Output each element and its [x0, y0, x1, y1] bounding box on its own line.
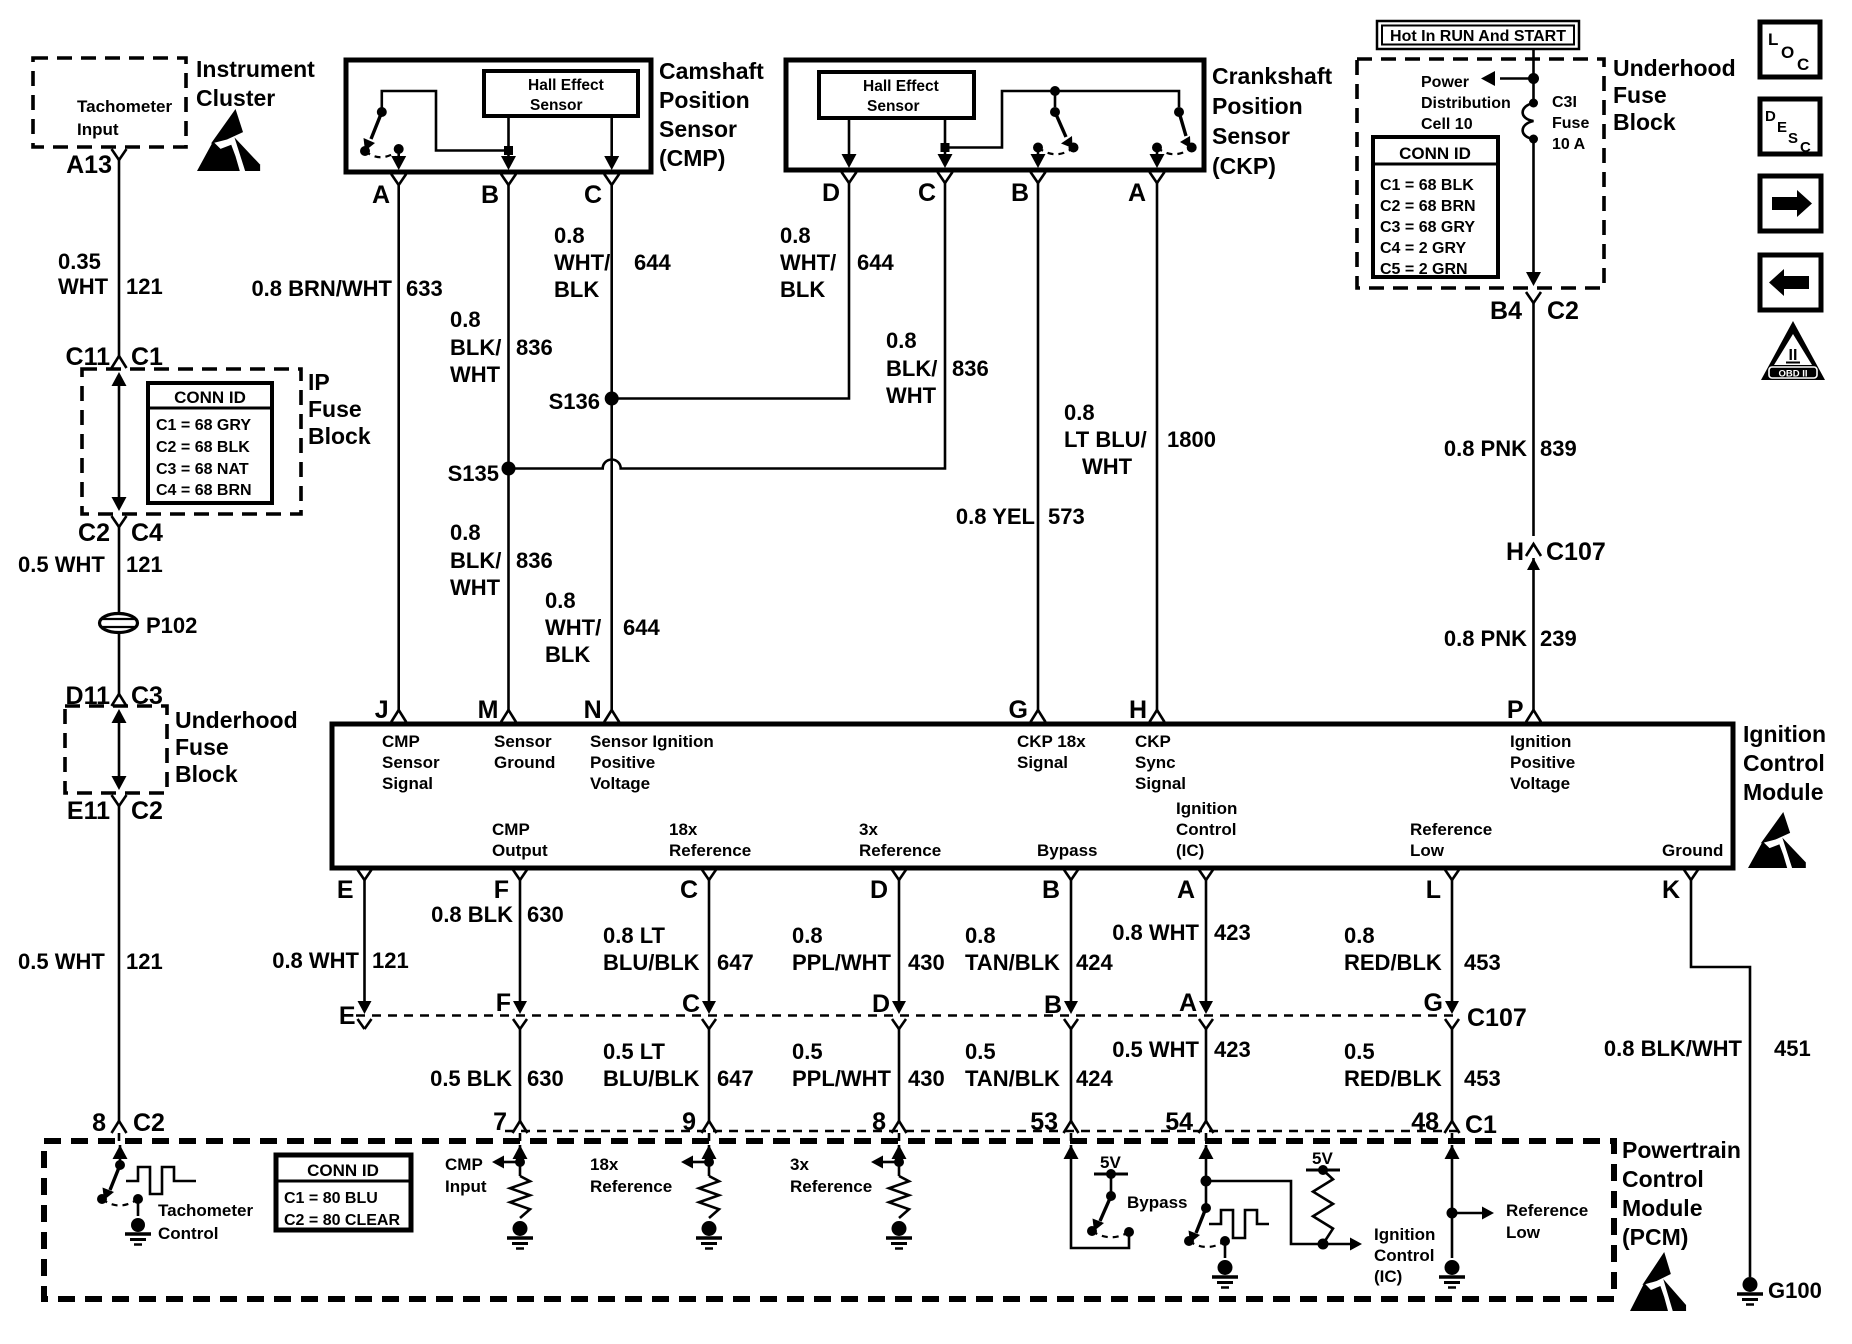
svg-text:Control: Control	[158, 1224, 218, 1243]
svg-text:0.8: 0.8	[792, 923, 823, 948]
svg-text:839: 839	[1540, 436, 1577, 461]
svg-text:II: II	[1789, 347, 1798, 364]
svg-text:LT BLU/: LT BLU/	[1064, 427, 1147, 452]
tachometer control switch (PCM pin 8)	[113, 1145, 128, 1159]
svg-text:Ignition: Ignition	[1176, 799, 1237, 818]
svg-text:TAN/BLK: TAN/BLK	[965, 950, 1060, 975]
svg-text:121: 121	[126, 274, 163, 299]
wire through IP fuse block	[118, 383, 121, 500]
reference low (PCM pin 48)	[1445, 1145, 1460, 1159]
svg-text:453: 453	[1464, 1066, 1501, 1091]
svg-text:C2: C2	[133, 1109, 165, 1137]
wire 573 YEL (CKP B to ICM G)	[1037, 208, 1040, 708]
svg-text:Sync: Sync	[1135, 753, 1176, 772]
wire 1800 LT BLU/WHT (CKP A to ICM H)	[1156, 208, 1159, 708]
svg-text:Output: Output	[492, 841, 548, 860]
camshaft position sensor box	[346, 60, 651, 172]
svg-text:Fuse: Fuse	[1552, 115, 1589, 132]
svg-text:C1 = 68 GRY: C1 = 68 GRY	[156, 417, 251, 434]
svg-text:Sensor: Sensor	[382, 753, 440, 772]
svg-text:M: M	[478, 696, 499, 724]
svg-text:836: 836	[516, 335, 553, 360]
svg-text:121: 121	[126, 552, 163, 577]
svg-text:C2 = 68 BRN: C2 = 68 BRN	[1380, 198, 1476, 215]
svg-text:C1: C1	[131, 343, 163, 371]
svg-text:239: 239	[1540, 626, 1577, 651]
svg-text:F: F	[496, 989, 511, 1017]
svg-text:48: 48	[1411, 1108, 1439, 1136]
svg-text:WHT/: WHT/	[554, 250, 610, 275]
svg-text:A: A	[372, 181, 390, 209]
svg-text:Reference: Reference	[1410, 820, 1492, 839]
svg-text:0.8: 0.8	[554, 223, 585, 248]
stub to CKP pin D	[848, 118, 851, 156]
svg-text:WHT: WHT	[1082, 454, 1133, 479]
wire 121 WHT (to underhood fuse block)	[118, 632, 121, 682]
svg-text:0.5: 0.5	[1344, 1039, 1375, 1064]
svg-text:0.5 WHT: 0.5 WHT	[1112, 1037, 1199, 1062]
svg-text:WHT: WHT	[450, 362, 501, 387]
svg-text:7: 7	[493, 1108, 507, 1136]
svg-text:C: C	[918, 179, 936, 207]
svg-text:836: 836	[952, 356, 989, 381]
svg-text:RED/BLK: RED/BLK	[1344, 1066, 1442, 1091]
svg-text:Sensor: Sensor	[1212, 123, 1290, 149]
svg-text:WHT/: WHT/	[545, 615, 601, 640]
svg-text:Fuse: Fuse	[1613, 82, 1667, 108]
stub to CMP pin C	[610, 116, 613, 158]
svg-text:Signal: Signal	[1017, 753, 1068, 772]
svg-text:C2: C2	[78, 519, 110, 547]
svg-text:Low: Low	[1410, 841, 1445, 860]
svg-text:18x: 18x	[669, 820, 698, 839]
svg-text:0.8 PNK: 0.8 PNK	[1444, 436, 1527, 461]
svg-text:C2 = 80 CLEAR: C2 = 80 CLEAR	[284, 1212, 400, 1229]
wire 836 BLK/WHT (CMP B to ICM M)	[507, 210, 510, 708]
svg-text:Ground: Ground	[494, 753, 555, 772]
wire 453 RED/BLK (ICM L to C107)	[1451, 901, 1454, 1001]
switch (CKP 18x)	[1050, 86, 1060, 96]
svg-text:Low: Low	[1506, 1223, 1541, 1242]
svg-text:423: 423	[1214, 920, 1251, 945]
svg-text:B: B	[1044, 991, 1062, 1019]
svg-text:Module: Module	[1743, 779, 1824, 805]
svg-text:(CKP): (CKP)	[1212, 153, 1276, 179]
svg-text:Ground: Ground	[1662, 841, 1723, 860]
svg-text:Input: Input	[77, 120, 119, 139]
CONN ID table (PCM)	[276, 1155, 411, 1230]
svg-text:B: B	[481, 181, 499, 209]
svg-text:Sensor Ignition: Sensor Ignition	[590, 732, 714, 751]
svg-text:Reference: Reference	[669, 841, 751, 860]
svg-text:Control: Control	[1374, 1246, 1434, 1265]
svg-text:Sensor: Sensor	[530, 97, 583, 114]
svg-text:Positive: Positive	[590, 753, 655, 772]
svg-text:A13: A13	[66, 151, 112, 179]
crankshaft position sensor box	[786, 60, 1204, 170]
svg-text:121: 121	[126, 949, 163, 974]
ESD symbol (PCM)	[1630, 1252, 1686, 1311]
svg-text:0.8: 0.8	[965, 923, 996, 948]
svg-text:Camshaft: Camshaft	[659, 58, 764, 84]
svg-text:C1 = 68 BLK: C1 = 68 BLK	[1380, 177, 1474, 194]
svg-text:BLK/: BLK/	[886, 356, 937, 381]
svg-text:CKP 18x: CKP 18x	[1017, 732, 1086, 751]
svg-text:Reference: Reference	[1506, 1201, 1588, 1220]
internal wiring (CMP)	[382, 91, 504, 151]
instrument cluster box	[33, 58, 186, 147]
wire 647 LT BLU/BLK (C107 to PCM)	[708, 1029, 711, 1108]
hall effect sensor box (CMP)	[484, 71, 638, 116]
svg-text:0.5: 0.5	[965, 1039, 996, 1064]
wire 239 PNK (to ICM P)	[1532, 558, 1535, 708]
wire 121 WHT (ICM E to C107)	[363, 901, 366, 1001]
wire 647 LT BLU/BLK (ICM C to C107)	[708, 901, 711, 1001]
svg-text:G: G	[1424, 989, 1443, 1017]
svg-text:644: 644	[857, 250, 894, 275]
svg-text:0.8: 0.8	[1344, 923, 1375, 948]
svg-text:BLK/: BLK/	[450, 335, 501, 360]
ESD symbol (ICM)	[1748, 812, 1806, 868]
3x reference (PCM)	[892, 1145, 907, 1159]
svg-text:C11: C11	[66, 343, 111, 371]
wire 121 WHT (tachometer input)	[118, 176, 121, 342]
svg-text:CONN ID: CONN ID	[307, 1161, 379, 1180]
svg-text:A: A	[1128, 179, 1146, 207]
svg-text:Reference: Reference	[859, 841, 941, 860]
wire S135 to CKP C (with hop over CMP C wire)	[509, 208, 946, 469]
svg-text:B4: B4	[1490, 297, 1522, 325]
wire through underhood fuse block	[118, 717, 121, 780]
svg-text:WHT/: WHT/	[780, 250, 836, 275]
svg-text:D: D	[870, 876, 888, 904]
svg-text:Sensor: Sensor	[659, 116, 737, 142]
svg-text:C107: C107	[1546, 538, 1606, 566]
CMP input (PCM)	[513, 1145, 528, 1159]
svg-text:Reference: Reference	[590, 1177, 672, 1196]
svg-text:C2 = 68 BLK: C2 = 68 BLK	[156, 439, 250, 456]
switch (CKP sync)	[1174, 107, 1184, 117]
svg-text:C2: C2	[131, 797, 163, 825]
svg-text:8: 8	[872, 1108, 886, 1136]
svg-text:0.5 LT: 0.5 LT	[603, 1039, 666, 1064]
svg-text:(CMP): (CMP)	[659, 145, 725, 171]
svg-text:Powertrain: Powertrain	[1622, 1137, 1741, 1163]
svg-text:Module: Module	[1622, 1195, 1703, 1221]
svg-text:0.8: 0.8	[450, 307, 481, 332]
IP fuse block box	[82, 369, 301, 514]
svg-text:Tachometer: Tachometer	[77, 97, 172, 116]
wire 424 TAN/BLK (ICM B to C107)	[1070, 901, 1073, 1001]
wire from hot feed	[1532, 49, 1535, 101]
svg-text:(PCM): (PCM)	[1622, 1224, 1688, 1250]
svg-text:PPL/WHT: PPL/WHT	[792, 950, 892, 975]
wire 121 WHT (to P102)	[118, 540, 121, 613]
svg-text:Crankshaft: Crankshaft	[1212, 63, 1332, 89]
wire S136 to CKP D	[612, 208, 849, 399]
svg-text:Reference: Reference	[790, 1177, 872, 1196]
svg-text:630: 630	[527, 902, 564, 927]
svg-text:Fuse: Fuse	[175, 734, 229, 760]
svg-text:0.5 WHT: 0.5 WHT	[18, 552, 105, 577]
svg-text:10 A: 10 A	[1552, 136, 1586, 153]
IC switch	[1205, 1181, 1208, 1208]
square wave symbol (IC)	[1209, 1210, 1269, 1238]
svg-text:53: 53	[1030, 1108, 1058, 1136]
svg-text:0.8: 0.8	[1064, 400, 1095, 425]
svg-text:Cluster: Cluster	[196, 85, 275, 111]
svg-text:Distribution: Distribution	[1421, 95, 1511, 112]
svg-text:S135: S135	[448, 461, 499, 486]
svg-text:J: J	[375, 696, 389, 724]
svg-text:C: C	[584, 181, 602, 209]
svg-text:Underhood: Underhood	[1613, 55, 1736, 81]
svg-text:424: 424	[1076, 1066, 1113, 1091]
svg-text:CMP: CMP	[445, 1155, 483, 1174]
icon DESC	[1760, 99, 1820, 154]
svg-text:P102: P102	[146, 613, 197, 638]
power distribution tap	[1528, 73, 1539, 84]
svg-text:C: C	[1797, 55, 1809, 74]
svg-text:B: B	[1042, 876, 1060, 904]
svg-text:Hall Effect: Hall Effect	[863, 78, 939, 95]
svg-text:K: K	[1662, 876, 1680, 904]
ignition control driver (PCM pin 54)	[1199, 1145, 1214, 1159]
svg-text:Control: Control	[1622, 1166, 1704, 1192]
svg-text:G: G	[1009, 696, 1028, 724]
svg-text:C4 = 2 GRY: C4 = 2 GRY	[1380, 240, 1466, 257]
svg-text:CMP: CMP	[492, 820, 530, 839]
svg-text:BLU/BLK: BLU/BLK	[603, 950, 700, 975]
svg-text:F: F	[494, 876, 509, 904]
wire 121 WHT (to PCM pin 8)	[118, 818, 121, 1108]
svg-text:C1 = 80 BLU: C1 = 80 BLU	[284, 1190, 378, 1207]
svg-text:Sensor: Sensor	[867, 98, 920, 115]
svg-text:E: E	[1777, 119, 1787, 136]
svg-text:0.8 WHT: 0.8 WHT	[1112, 920, 1199, 945]
svg-text:Ignition: Ignition	[1743, 721, 1826, 747]
svg-text:C: C	[680, 876, 698, 904]
svg-text:8: 8	[92, 1109, 106, 1137]
PCM connector C1 line	[505, 1130, 1458, 1132]
svg-text:H: H	[1129, 696, 1147, 724]
svg-text:3x: 3x	[859, 820, 878, 839]
svg-text:CKP: CKP	[1135, 732, 1171, 751]
svg-text:WHT: WHT	[450, 575, 501, 600]
svg-text:H: H	[1506, 538, 1524, 566]
svg-text:453: 453	[1464, 950, 1501, 975]
underhood fuse block box (left)	[65, 706, 167, 793]
wire 630 BLK (C107 to PCM)	[519, 1029, 522, 1108]
svg-text:647: 647	[717, 950, 754, 975]
svg-text:430: 430	[908, 950, 945, 975]
svg-text:9: 9	[682, 1108, 696, 1136]
svg-text:0.8 BLK/WHT: 0.8 BLK/WHT	[1604, 1036, 1743, 1061]
svg-text:OBD II: OBD II	[1778, 369, 1807, 380]
bypass switch (PCM pin 53)	[1064, 1145, 1079, 1159]
svg-text:633: 633	[406, 276, 443, 301]
svg-text:1800: 1800	[1167, 427, 1216, 452]
CONN ID table (IP fuse block)	[148, 383, 272, 503]
svg-text:Hall Effect: Hall Effect	[528, 77, 604, 94]
wire 423 WHT (C107 to PCM)	[1205, 1029, 1208, 1108]
svg-text:E: E	[339, 1002, 356, 1030]
svg-text:CONN ID: CONN ID	[1399, 144, 1471, 163]
icon LOC	[1760, 22, 1820, 77]
hall effect sensor box (CKP)	[819, 72, 974, 118]
svg-text:WHT: WHT	[58, 274, 109, 299]
18x reference (PCM)	[702, 1145, 717, 1159]
svg-text:Ignition: Ignition	[1374, 1225, 1435, 1244]
svg-text:WHT: WHT	[886, 383, 937, 408]
svg-text:E: E	[337, 876, 354, 904]
powertrain control module box	[44, 1141, 1614, 1299]
junction (CMP pin B)	[504, 146, 513, 155]
svg-text:0.8: 0.8	[450, 520, 481, 545]
svg-text:E11: E11	[67, 797, 110, 825]
svg-text:Voltage: Voltage	[1510, 774, 1570, 793]
svg-text:RED/BLK: RED/BLK	[1344, 950, 1442, 975]
svg-text:S136: S136	[549, 389, 600, 414]
icon back arrow	[1760, 255, 1821, 310]
underhood fuse block box (right)	[1357, 59, 1604, 288]
svg-text:Control: Control	[1743, 750, 1825, 776]
wire 423 WHT (ICM A to C107)	[1205, 901, 1208, 1001]
svg-text:Power: Power	[1421, 74, 1469, 91]
wire 839 PNK	[1532, 320, 1535, 536]
svg-text:0.8: 0.8	[886, 328, 917, 353]
svg-text:BLU/BLK: BLU/BLK	[603, 1066, 700, 1091]
ESD symbol (instrument cluster)	[197, 109, 260, 171]
svg-text:L: L	[1768, 30, 1778, 49]
svg-text:0.5 WHT: 0.5 WHT	[18, 949, 105, 974]
svg-text:Ignition: Ignition	[1510, 732, 1571, 751]
svg-text:C4: C4	[131, 519, 163, 547]
svg-text:Fuse: Fuse	[308, 396, 362, 422]
svg-text:CONN ID: CONN ID	[174, 388, 246, 407]
svg-text:Hot In RUN And START: Hot In RUN And START	[1390, 28, 1566, 45]
svg-text:G100: G100	[1768, 1278, 1822, 1303]
svg-text:Signal: Signal	[1135, 774, 1186, 793]
svg-text:CMP: CMP	[382, 732, 420, 751]
internal wiring (CKP)	[944, 118, 947, 143]
svg-text:121: 121	[372, 948, 409, 973]
svg-text:430: 430	[908, 1066, 945, 1091]
svg-text:Voltage: Voltage	[590, 774, 650, 793]
wire 430 PPL/WHT (ICM D to C107)	[898, 901, 901, 1001]
svg-text:PPL/WHT: PPL/WHT	[792, 1066, 892, 1091]
svg-text:D: D	[1765, 108, 1776, 125]
svg-text:54: 54	[1165, 1108, 1193, 1136]
svg-text:Control: Control	[1176, 820, 1236, 839]
svg-text:C: C	[682, 990, 700, 1018]
svg-text:Sensor: Sensor	[494, 732, 552, 751]
svg-text:0.8 BRN/WHT: 0.8 BRN/WHT	[251, 276, 392, 301]
svg-text:Input: Input	[445, 1177, 487, 1196]
svg-text:C3 = 68 GRY: C3 = 68 GRY	[1380, 219, 1475, 236]
svg-text:N: N	[584, 696, 602, 724]
svg-text:C2: C2	[1547, 297, 1579, 325]
svg-text:644: 644	[623, 615, 660, 640]
svg-text:BLK: BLK	[780, 277, 825, 302]
svg-text:C4 = 68 BRN: C4 = 68 BRN	[156, 482, 252, 499]
grommet P102	[100, 614, 138, 633]
svg-text:Signal: Signal	[382, 774, 433, 793]
svg-text:0.8 YEL: 0.8 YEL	[956, 504, 1035, 529]
wire 633 BRN/WHT (CMP A to ICM J)	[397, 210, 400, 708]
svg-text:P: P	[1507, 696, 1524, 724]
svg-text:423: 423	[1214, 1037, 1251, 1062]
svg-text:0.5: 0.5	[792, 1039, 823, 1064]
svg-text:C3I: C3I	[1552, 94, 1577, 111]
wire 453 RED/BLK (C107 to PCM)	[1451, 1029, 1454, 1108]
svg-text:O: O	[1781, 43, 1794, 62]
svg-text:Position: Position	[1212, 93, 1303, 119]
svg-text:BLK: BLK	[545, 642, 590, 667]
svg-text:Bypass: Bypass	[1037, 841, 1097, 860]
svg-text:Block: Block	[175, 761, 238, 787]
fuse C3I 10A	[1529, 99, 1538, 108]
wire 630 BLK (ICM F to C107)	[519, 901, 522, 1001]
svg-text:S: S	[1788, 130, 1798, 147]
wire 430 PPL/WHT (C107 to PCM)	[898, 1029, 901, 1108]
svg-text:3x: 3x	[790, 1155, 809, 1174]
wire 644 WHT/BLK (CMP C to ICM N)	[610, 210, 613, 708]
wire 451 BLK/WHT (ICM K to G100)	[1691, 901, 1750, 1277]
svg-text:Position: Position	[659, 87, 750, 113]
svg-text:C: C	[1800, 139, 1811, 156]
Hot In RUN And START box	[1377, 21, 1579, 49]
svg-text:Positive: Positive	[1510, 753, 1575, 772]
svg-text:0.35: 0.35	[58, 249, 101, 274]
icon forward arrow	[1760, 176, 1821, 231]
svg-text:A: A	[1179, 989, 1197, 1017]
connector C107 line	[356, 1014, 1458, 1016]
square wave symbol (tachometer)	[126, 1167, 196, 1194]
wire 424 TAN/BLK (C107 to PCM)	[1070, 1029, 1073, 1108]
svg-text:Instrument: Instrument	[196, 56, 315, 82]
svg-text:D: D	[822, 179, 840, 207]
ignition control module box	[332, 724, 1733, 868]
icon OBD II triangle	[1761, 321, 1825, 380]
svg-text:A: A	[1177, 876, 1195, 904]
svg-text:0.8 LT: 0.8 LT	[603, 923, 666, 948]
CONN ID table (underhood fuse block)	[1373, 137, 1498, 277]
svg-text:0.8: 0.8	[545, 588, 576, 613]
svg-text:Tachometer: Tachometer	[158, 1201, 253, 1220]
svg-text:L: L	[1426, 876, 1441, 904]
svg-text:18x: 18x	[590, 1155, 619, 1174]
svg-text:BLK: BLK	[554, 277, 599, 302]
svg-text:424: 424	[1076, 950, 1113, 975]
svg-text:0.8 PNK: 0.8 PNK	[1444, 626, 1527, 651]
wire fuse to B4	[1532, 139, 1535, 275]
svg-text:Block: Block	[308, 423, 371, 449]
svg-text:630: 630	[527, 1066, 564, 1091]
svg-text:D: D	[872, 990, 890, 1018]
svg-text:0.8 BLK: 0.8 BLK	[431, 902, 513, 927]
svg-text:Bypass: Bypass	[1127, 1193, 1187, 1212]
svg-text:C3 = 68 NAT: C3 = 68 NAT	[156, 461, 249, 478]
svg-text:TAN/BLK: TAN/BLK	[965, 1066, 1060, 1091]
svg-text:644: 644	[634, 250, 671, 275]
svg-text:0.8 WHT: 0.8 WHT	[272, 948, 359, 973]
switch (CMP hall output)	[377, 107, 387, 117]
svg-text:Block: Block	[1613, 109, 1676, 135]
svg-text:(IC): (IC)	[1374, 1267, 1402, 1286]
svg-text:B: B	[1011, 179, 1029, 207]
svg-text:BLK/: BLK/	[450, 548, 501, 573]
